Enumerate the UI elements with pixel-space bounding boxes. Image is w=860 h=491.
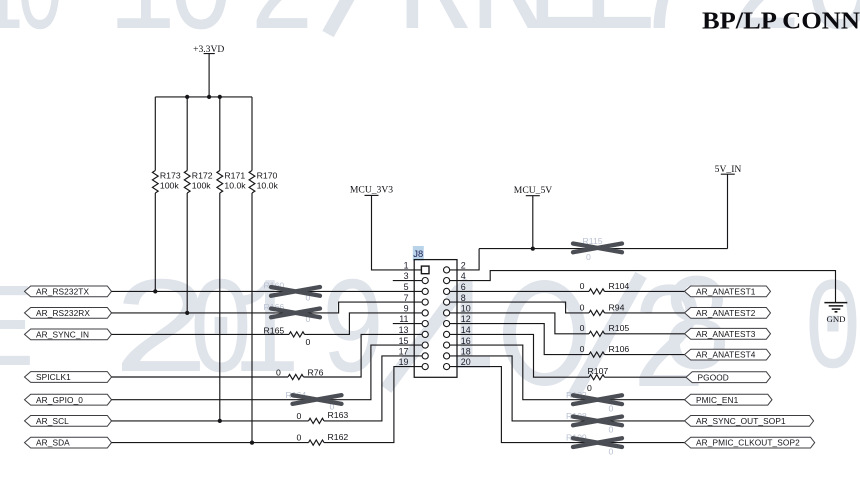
wire R105 to AR_ANATEST3 (605, 333, 685, 335)
connector J8 pin 7 pad (422, 299, 428, 305)
resistor R172 100k (184, 97, 212, 313)
resistor R160 0 (DNP) (264, 281, 321, 303)
svg-text:PGOOD: PGOOD (698, 372, 729, 382)
net flag AR_SDA (25, 437, 112, 448)
svg-text:12: 12 (461, 314, 471, 324)
svg-text:R162: R162 (328, 432, 349, 442)
svg-text:19: 19 (399, 357, 409, 367)
svg-text:AR_RS232RX: AR_RS232RX (36, 308, 90, 318)
svg-text:13: 13 (399, 325, 409, 335)
svg-text:R106: R106 (609, 344, 630, 354)
svg-text:100k: 100k (192, 181, 211, 191)
net flag AR_RS232RX (25, 308, 112, 319)
svg-text:AR_SYNC_IN: AR_SYNC_IN (36, 330, 89, 340)
wire SPICLK1 to J8 pin 13 (112, 376, 289, 378)
power net 5V_IN (715, 164, 742, 249)
power net MCU_3V3 (350, 185, 393, 196)
svg-text:R94: R94 (609, 302, 625, 312)
wire J8 pin 12 to AR_ANATEST4 row (450, 324, 589, 355)
resistor R173 100k (152, 97, 180, 292)
junction R171 / AR_SCL (218, 419, 222, 423)
svg-text:MCU_3V3: MCU_3V3 (350, 185, 393, 196)
wire R94 to AR_ANATEST2 (605, 312, 685, 314)
resistor R163 0 (297, 410, 349, 423)
svg-text:R165: R165 (264, 325, 285, 335)
svg-text:4: 4 (461, 271, 466, 281)
wire R104 to AR_ANATEST1 (605, 290, 685, 292)
svg-text:3: 3 (404, 271, 409, 281)
wire AR_RS232RX to J8 pin 7 (112, 302, 423, 313)
svg-text:AR_SDA: AR_SDA (36, 438, 70, 448)
connector J8 pin 13 pad (422, 331, 428, 337)
net flag AR_PMIC_CLKOUT_SOP2 (685, 437, 815, 448)
resistor R170 10.0k (249, 97, 278, 443)
svg-text:1: 1 (404, 261, 409, 271)
svg-text:R104: R104 (609, 281, 630, 291)
svg-text:7: 7 (404, 293, 409, 303)
connector J8 pin 2 pad (444, 267, 450, 273)
svg-text:PMIC_EN1: PMIC_EN1 (696, 395, 739, 405)
svg-text:14: 14 (461, 325, 471, 335)
svg-text:0: 0 (609, 446, 614, 456)
junction on 3.3VD bus at R172 (185, 95, 189, 99)
resistor R108 0 (DNP) (566, 411, 622, 435)
svg-text:0: 0 (580, 323, 585, 333)
junction R173 / AR_RS232TX (153, 289, 157, 293)
svg-text:0: 0 (306, 337, 311, 347)
svg-text:R105: R105 (609, 323, 630, 333)
svg-text:0: 0 (580, 344, 585, 354)
svg-text:0: 0 (587, 383, 592, 393)
svg-text:AR_SCL: AR_SCL (36, 416, 69, 426)
connector J8 pin 3 pad (422, 278, 428, 284)
junction on 3.3VD bus at R171 (218, 95, 222, 99)
wire AR_GPIO_0 to J8 pin 15 (112, 345, 423, 400)
svg-text:SPICLK1: SPICLK1 (36, 372, 71, 382)
svg-text:2: 2 (461, 261, 466, 271)
wire stub pin 11 (393, 323, 422, 325)
resistor R115 0 (DNP) (573, 236, 622, 262)
net flag AR_ANATEST3 (685, 328, 771, 339)
connector J8 pin 16 pad (444, 342, 450, 348)
wire MCU_5V rail to 5V_IN (479, 248, 727, 250)
net flag PGOOD (686, 372, 771, 383)
svg-text:6: 6 (461, 282, 466, 292)
svg-text:0: 0 (297, 433, 302, 443)
resistor R107 0 (587, 366, 608, 393)
connector J8 pin 1 square pad (421, 266, 429, 274)
svg-text:0: 0 (609, 404, 614, 414)
svg-text:AR_ANATEST4: AR_ANATEST4 (696, 350, 756, 360)
wire J8 pin 14 to R107 (450, 334, 589, 377)
resistor R94 0 (580, 302, 625, 315)
resistor R106 0 (580, 344, 630, 357)
svg-text:0: 0 (804, 258, 860, 406)
net flag AR_ANATEST2 (685, 308, 771, 319)
power net MCU_5V (514, 185, 552, 249)
svg-text:R172: R172 (192, 171, 213, 181)
svg-text:5V_IN: 5V_IN (715, 164, 742, 175)
svg-text:R163: R163 (328, 410, 349, 420)
ground GND (824, 303, 847, 324)
resistor R102 0 (DNP) (566, 390, 622, 414)
junction R172 / AR_RS232RX (185, 311, 189, 315)
resistor R165 0 (264, 325, 311, 347)
wire J8 pin 8 to AR_ANATEST2 row (450, 302, 589, 313)
connector J8 pin 20 pad (444, 364, 450, 370)
wire J8 pin 2 to MCU_5V rail (450, 249, 479, 270)
wire AR_SYNC_IN to J8 pin 9 (112, 333, 290, 335)
svg-text:100k: 100k (160, 181, 179, 191)
svg-text:16: 16 (461, 336, 471, 346)
svg-text:10.0k: 10.0k (224, 181, 246, 191)
svg-text:17: 17 (399, 347, 409, 357)
net flag AR_RS232TX (25, 286, 112, 297)
svg-text:7: 7 (629, 0, 703, 72)
wire R106 to AR_ANATEST4 (605, 354, 685, 356)
connector J8 pin 15 pad (422, 342, 428, 348)
connector J8 pin 19 pad (422, 364, 428, 370)
svg-text:18: 18 (461, 347, 471, 357)
connector J8 refdes (413, 246, 424, 261)
svg-text:AR_ANATEST3: AR_ANATEST3 (696, 329, 756, 339)
svg-text:5: 5 (404, 282, 409, 292)
svg-text:R171: R171 (224, 171, 245, 181)
svg-text:J8: J8 (413, 248, 423, 259)
svg-text:R76: R76 (308, 368, 324, 378)
connector J8 pin 18 pad (444, 353, 450, 359)
svg-text:11: 11 (399, 314, 408, 324)
wire +3.3VD bus (155, 96, 252, 98)
svg-text:0: 0 (168, 0, 234, 70)
net flag AR_ANATEST4 (685, 349, 771, 360)
svg-text:1: 1 (109, 0, 175, 70)
wire J8 pin 10 to AR_ANATEST3 row (450, 313, 589, 334)
connector J8 pin 9 pad (422, 310, 428, 316)
resistor R162 0 (297, 432, 349, 445)
svg-text:MCU_5V: MCU_5V (514, 185, 552, 196)
net flag AR_SYNC_IN (25, 329, 112, 340)
resistor R166 0 (DNP) (264, 302, 321, 324)
connector J8 pin 17 pad (422, 353, 428, 359)
wire AR_RS232TX to J8 pin 5 (112, 290, 423, 292)
wire J8 pin 16 to PMIC_EN1 (450, 345, 685, 400)
power net +3.3VD (193, 44, 224, 97)
connector J8 pin 10 pad (444, 310, 450, 316)
connector J8 pin 14 pad (444, 331, 450, 337)
connector J8 pin 8 pad (444, 299, 450, 305)
wire MCU_3V3 to J8 pin 1 (372, 195, 422, 270)
connector J8 pin 5 pad (422, 288, 428, 294)
net flag AR_ANATEST1 (685, 286, 771, 297)
junction MCU_5V (531, 246, 535, 250)
svg-text:0: 0 (609, 425, 614, 435)
wire stub pin 3 (393, 280, 422, 282)
svg-text:0: 0 (580, 281, 585, 291)
resistor R109 0 (DNP) (566, 433, 622, 457)
svg-text:0: 0 (586, 252, 591, 262)
resistor R171 10.0k (217, 97, 246, 421)
wire J8 pin 20 to AR_PMIC_CLKOUT_SOP2 (450, 367, 685, 443)
svg-text:10.0k: 10.0k (257, 181, 279, 191)
svg-text:AR_SYNC_OUT_SOP1: AR_SYNC_OUT_SOP1 (696, 416, 786, 426)
svg-text:8: 8 (461, 293, 466, 303)
svg-text:R: R (397, 0, 471, 72)
resistor R76 0 (276, 368, 324, 380)
resistor R105 0 (580, 323, 630, 336)
wire R107 to PGOOD (605, 376, 687, 378)
svg-text:0: 0 (297, 411, 302, 421)
net flag PMIC_EN1 (685, 394, 773, 405)
net flag AR_SCL (25, 416, 112, 427)
junction R170 / AR_SDA (250, 440, 254, 444)
svg-text:BP/LP CONN: BP/LP CONN (702, 8, 860, 35)
svg-text:0: 0 (16, 0, 65, 68)
svg-text:9: 9 (404, 304, 409, 314)
svg-text:GND: GND (826, 314, 845, 324)
svg-text:R173: R173 (160, 171, 181, 181)
svg-text:AR_ANATEST1: AR_ANATEST1 (696, 287, 756, 297)
junction on 3.3VD bus at stem (207, 95, 211, 99)
wire J8 pin 6 to R104 (450, 290, 589, 292)
net flag SPICLK1 (25, 372, 112, 383)
svg-text:15: 15 (399, 336, 409, 346)
resistor R164 0 (DNP) (286, 390, 342, 412)
svg-text:10: 10 (461, 304, 471, 314)
svg-text:R170: R170 (257, 171, 278, 181)
svg-text:AR_PMIC_CLKOUT_SOP2: AR_PMIC_CLKOUT_SOP2 (696, 438, 800, 448)
connector J8 pin 6 pad (444, 288, 450, 294)
connector J8 pin 4 pad (444, 278, 450, 284)
resistor R104 0 (580, 281, 630, 294)
net flag AR_GPIO_0 (25, 394, 112, 405)
svg-text:AR_GPIO_0: AR_GPIO_0 (36, 395, 83, 405)
wire AR_SCL to J8 pin 17 (112, 420, 309, 422)
svg-text:0: 0 (580, 302, 585, 312)
connector J8 pin 11 pad (422, 321, 428, 327)
svg-text:2: 2 (249, 0, 315, 70)
wire J8 pin 18 to AR_SYNC_OUT_SOP1 (450, 356, 685, 421)
connector J8 pin 12 pad (444, 321, 450, 327)
wire AR_SDA to J8 pin 19 (112, 442, 309, 444)
svg-text:AR_ANATEST2: AR_ANATEST2 (696, 308, 756, 318)
net flag AR_SYNC_OUT_SOP1 (685, 416, 814, 427)
svg-text:20: 20 (461, 357, 471, 367)
connector J8 body (414, 260, 457, 378)
wire J8 pin 4 to GND (450, 271, 836, 303)
svg-text:AR_RS232TX: AR_RS232TX (36, 287, 89, 297)
svg-text:0: 0 (276, 368, 281, 378)
